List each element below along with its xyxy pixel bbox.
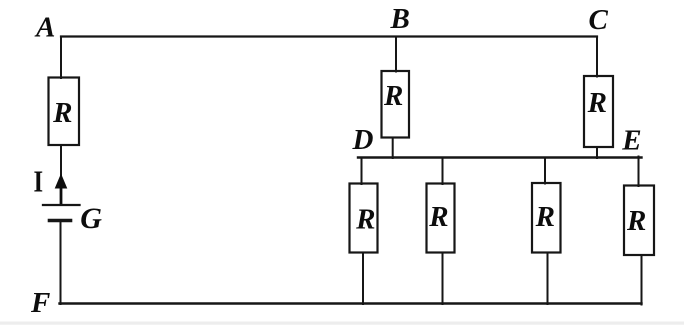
svg-text:A: A (34, 12, 55, 44)
svg-text:G: G (80, 202, 102, 235)
svg-text:F: F (30, 287, 50, 319)
svg-text:D: D (352, 124, 374, 156)
svg-text:R: R (587, 87, 607, 119)
svg-text:R: R (428, 201, 448, 233)
svg-text:C: C (589, 4, 609, 36)
svg-text:E: E (621, 125, 641, 157)
svg-text:R: R (52, 97, 72, 129)
svg-text:R: R (626, 205, 646, 237)
svg-text:I: I (34, 163, 44, 198)
svg-text:R: R (355, 203, 375, 235)
svg-text:R: R (535, 201, 555, 233)
svg-text:B: B (390, 3, 410, 35)
svg-text:R: R (383, 80, 403, 112)
